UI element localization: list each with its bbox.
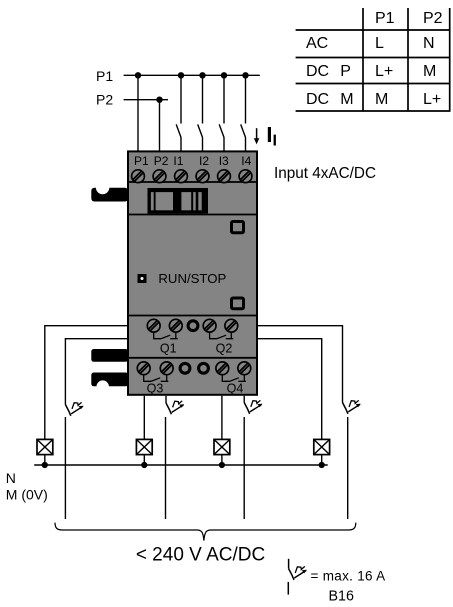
wire E1 to N xyxy=(44,455,46,465)
svg-text:Q3: Q3 xyxy=(147,382,164,396)
wire Q1b to breaker F1 xyxy=(65,339,127,405)
switch S1 on I1 xyxy=(176,75,181,151)
wire Q2a to breaker F2 xyxy=(258,326,343,403)
terminal screw I1 xyxy=(175,170,188,183)
breaker F4 xyxy=(244,400,262,414)
svg-text:P1: P1 xyxy=(375,10,395,27)
terminal screw P1 xyxy=(132,170,145,183)
svg-text:Q4: Q4 xyxy=(227,382,244,396)
svg-text:N: N xyxy=(6,470,16,486)
mounting clip bottom xyxy=(91,373,128,393)
mounting clip top xyxy=(91,181,128,202)
junction dot I1 xyxy=(178,72,184,78)
wire E4 to N xyxy=(321,455,323,465)
label B16 xyxy=(329,589,354,605)
relay contact Q2 xyxy=(210,332,234,339)
label Q3 xyxy=(147,382,164,396)
svg-text:< 240 V AC/DC: < 240 V AC/DC xyxy=(136,545,265,566)
expansion connector xyxy=(148,188,209,214)
label Q2 xyxy=(216,341,233,355)
svg-text:I1: I1 xyxy=(173,154,183,168)
wire P1 bus xyxy=(124,74,260,76)
relay contact Q1 xyxy=(154,332,178,339)
table: terminal assignment P1/P2 xyxy=(296,8,451,111)
terminal screw Q2b xyxy=(225,319,238,332)
terminal screw Q4b xyxy=(238,362,251,375)
svg-text:P1: P1 xyxy=(134,154,149,168)
wire E3 to N xyxy=(221,455,223,465)
junction dot P2 xyxy=(156,97,162,103)
svg-text:M: M xyxy=(340,91,353,108)
svg-text:I2: I2 xyxy=(199,154,209,168)
svg-text:Q2: Q2 xyxy=(216,341,233,355)
label Q4 xyxy=(227,382,244,396)
terminal screw Q3a xyxy=(137,362,150,375)
svg-text:M: M xyxy=(375,91,388,108)
net label P1 xyxy=(96,68,113,84)
terminal screw I3 xyxy=(218,170,231,183)
junction dot E2-N xyxy=(141,462,147,468)
wire P2 drop xyxy=(159,100,161,151)
label RUN/STOP xyxy=(158,271,226,286)
svg-text:I4: I4 xyxy=(241,154,251,168)
terminal label I2 xyxy=(199,154,209,168)
terminal screw Q4a xyxy=(216,362,229,375)
wire N bus xyxy=(34,464,328,466)
svg-text:= max. 16 A: = max. 16 A xyxy=(311,568,386,583)
svg-text:P2: P2 xyxy=(423,10,443,27)
svg-text:P: P xyxy=(340,63,351,80)
wire E2 to N xyxy=(143,455,145,465)
output socket ring Q1/Q2 xyxy=(188,321,198,331)
svg-text:M (0V): M (0V) xyxy=(6,487,48,503)
wire Q3b to breaker F3 xyxy=(165,396,167,403)
wire P2 bus xyxy=(124,99,168,101)
terminal screw I4 xyxy=(239,170,252,183)
button square upper xyxy=(232,222,244,233)
terminal label I1 xyxy=(173,154,183,168)
wire P1 drop xyxy=(137,75,139,150)
svg-text:L+: L+ xyxy=(375,63,393,80)
mounting clip middle xyxy=(91,349,128,362)
breaker F2 xyxy=(343,400,361,414)
svg-text:DC: DC xyxy=(306,91,329,108)
breaker F3 xyxy=(166,401,184,415)
wire F3 down xyxy=(165,417,167,519)
junction dot I4 xyxy=(242,72,248,78)
wire Q4a to lamp E3 xyxy=(221,396,223,440)
label = max. 16 A xyxy=(311,568,386,583)
label Input 4xAC/DC xyxy=(274,165,376,182)
terminal label I3 xyxy=(219,154,229,168)
wire Q3a to lamp E2 xyxy=(143,396,145,440)
junction dot I2 xyxy=(199,72,205,78)
lamp E2 xyxy=(136,439,152,454)
wire F4 down xyxy=(243,417,245,519)
output socket ring Q3 xyxy=(180,363,190,373)
switch S3 on I3 xyxy=(219,75,224,151)
svg-text:B16: B16 xyxy=(329,589,354,605)
breaker F5 legend symbol xyxy=(288,559,307,595)
svg-text:RUN/STOP: RUN/STOP xyxy=(158,271,226,286)
terminal label P1 xyxy=(134,154,149,168)
switch S4 on I4 xyxy=(241,75,246,151)
relay contact Q4 xyxy=(222,375,246,382)
junction dot E1-N xyxy=(42,462,48,468)
svg-text:P2: P2 xyxy=(96,91,113,107)
wire F2 down xyxy=(347,417,349,519)
terminal screw I2 xyxy=(196,170,209,183)
wire Q1a to lamp E1 xyxy=(45,326,127,440)
svg-text:DC: DC xyxy=(306,63,329,80)
switch S2 on I2 xyxy=(198,75,203,151)
status LED xyxy=(138,274,147,283)
svg-text:P2: P2 xyxy=(154,154,169,168)
svg-text:L+: L+ xyxy=(423,91,441,108)
terminal screw Q1b xyxy=(169,319,182,332)
svg-text:AC: AC xyxy=(306,35,328,52)
breaker F1 xyxy=(65,402,83,416)
svg-text:Input 4xAC/DC: Input 4xAC/DC xyxy=(274,165,376,182)
svg-text:M: M xyxy=(423,63,436,80)
terminal screw Q2a xyxy=(203,319,216,332)
module U1 body xyxy=(128,151,257,394)
svg-text:N: N xyxy=(423,35,435,52)
wire Q4b to breaker F4 xyxy=(243,396,245,403)
net label M (0V) xyxy=(6,487,48,503)
button square lower xyxy=(232,298,244,309)
junction dot P1 xyxy=(135,72,141,78)
net label N xyxy=(6,470,16,486)
junction dot I3 xyxy=(221,72,227,78)
svg-text:I3: I3 xyxy=(219,154,229,168)
net label P2 xyxy=(96,91,113,107)
svg-text:P1: P1 xyxy=(96,68,113,84)
lamp E1 xyxy=(37,439,53,454)
svg-text:Q1: Q1 xyxy=(160,341,177,355)
terminal label I4 xyxy=(241,154,251,168)
lamp E3 xyxy=(214,439,230,454)
junction dot E4-N xyxy=(319,462,325,468)
relay contact Q3 xyxy=(144,375,169,382)
terminal label P2 xyxy=(154,154,169,168)
wire Q2b to lamp E4 xyxy=(258,339,322,440)
output socket ring Q4 xyxy=(199,363,209,373)
terminal screw P2 xyxy=(153,170,166,183)
terminal screw Q1a xyxy=(147,319,160,332)
svg-text:L: L xyxy=(375,35,384,52)
brace 240V group xyxy=(55,523,356,541)
terminal screw Q3b xyxy=(160,362,173,375)
junction dot E3-N xyxy=(219,462,225,468)
lamp E4 xyxy=(314,439,330,454)
current arrow II xyxy=(254,127,276,146)
wire F1 down xyxy=(64,417,66,519)
label Q1 xyxy=(160,341,177,355)
label < 240 V AC/DC xyxy=(136,545,265,566)
